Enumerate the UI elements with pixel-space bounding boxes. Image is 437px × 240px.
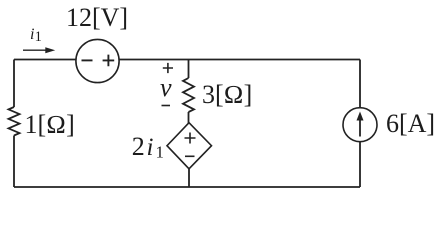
label 2i1	[132, 132, 164, 162]
wire left vertical bottom (R1 to bottom corner)	[13, 136, 15, 188]
label v (voltage across R2)	[160, 73, 172, 102]
svg-text:6[A]: 6[A]	[386, 109, 435, 138]
label v plus sign	[163, 63, 173, 73]
label i1	[30, 26, 42, 45]
wire middle (R2 to dependent source)	[188, 112, 190, 123]
label v minus sign	[162, 105, 171, 107]
current source I1 6[A] (circle with up arrow)	[343, 108, 377, 142]
svg-text:2: 2	[132, 132, 145, 161]
label 3[ohm]	[202, 80, 252, 109]
wire right vertical bottom (current source to bottom-right corner)	[359, 142, 361, 187]
svg-text:1: 1	[156, 143, 165, 162]
wire left vertical top (corner to R1)	[13, 60, 15, 108]
svg-text:1[Ω]: 1[Ω]	[25, 110, 75, 139]
voltage source V1 (12[V] circle with - +)	[76, 39, 119, 82]
wire middle vertical bottom (dependent source to bottom wire)	[188, 169, 190, 187]
resistor R1 1[ohm]	[9, 107, 20, 136]
svg-text:i: i	[147, 134, 154, 161]
dependent source 2i1 (diamond with + -)	[167, 123, 212, 169]
svg-text:1: 1	[35, 29, 42, 45]
wire bottom segment	[14, 186, 360, 188]
current arrow i1	[23, 47, 55, 53]
resistor R2 3[ohm]	[183, 78, 194, 112]
label 6[A]	[386, 109, 435, 138]
label 1[ohm]	[25, 110, 75, 139]
svg-text:12[V]: 12[V]	[66, 3, 128, 32]
wire middle vertical top (top wire to R2)	[188, 60, 190, 79]
wire top-middle segment (voltage source to top-right corner)	[119, 59, 360, 61]
wire right vertical top (top-right corner to current source)	[359, 60, 361, 109]
wire top-left segment (left corner to voltage source)	[14, 59, 76, 61]
label 12[V]	[66, 3, 128, 32]
svg-text:3[Ω]: 3[Ω]	[202, 80, 252, 109]
svg-text:v: v	[160, 73, 172, 102]
